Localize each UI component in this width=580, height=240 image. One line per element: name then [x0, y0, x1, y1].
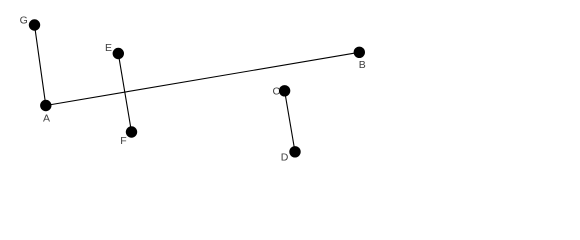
- svg-text:A: A: [43, 113, 50, 125]
- point G: [29, 19, 40, 30]
- point B: [354, 47, 365, 58]
- point F: [126, 126, 137, 137]
- segment EF: [118, 54, 131, 133]
- point C: [279, 85, 290, 96]
- svg-text:D: D: [281, 151, 289, 163]
- svg-text:B: B: [359, 59, 366, 71]
- segment GA: [35, 25, 46, 106]
- segment AB: [46, 52, 360, 105]
- svg-text:C: C: [273, 85, 281, 97]
- point E: [113, 48, 124, 59]
- svg-text:E: E: [105, 42, 112, 54]
- point D: [289, 146, 300, 157]
- svg-text:F: F: [120, 135, 126, 147]
- svg-text:G: G: [20, 15, 28, 27]
- point A: [40, 100, 51, 111]
- segment CD: [285, 91, 295, 152]
